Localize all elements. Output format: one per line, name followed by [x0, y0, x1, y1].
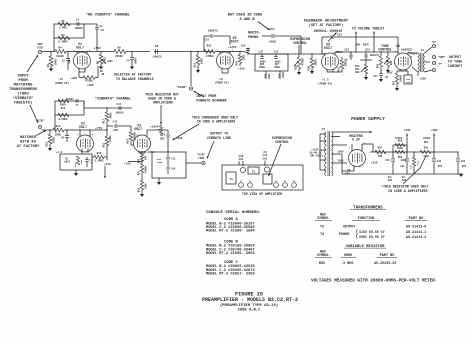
- svg-text:+240: +240: [238, 68, 245, 71]
- svg-text:C19: C19: [241, 45, 246, 48]
- svg-text:.00005: .00005: [73, 27, 83, 30]
- svg-text:C3: C3: [100, 25, 104, 28]
- svg-text:C23: C23: [365, 48, 370, 51]
- svg-text:.00025: .00025: [114, 111, 124, 114]
- svg-text:“VIB”: “VIB”: [35, 119, 44, 123]
- svg-text:.005: .005: [112, 129, 119, 132]
- svg-text:CODE B: CODE B: [224, 240, 238, 244]
- svg-text:R17: R17: [103, 119, 106, 124]
- svg-text:R60: R60: [410, 164, 413, 169]
- svg-text:115V 50-60 CY: 115V 50-60 CY: [359, 230, 385, 234]
- svg-text:R58: R58: [398, 140, 403, 143]
- svg-text:POWER: POWER: [339, 233, 350, 237]
- svg-text:R61: R61: [424, 147, 429, 150]
- svg-text:(FROM V5): (FROM V5): [55, 81, 70, 85]
- svg-text:RADIO-: RADIO-: [248, 32, 261, 36]
- svg-text:R15: R15: [103, 142, 106, 147]
- svg-text:C62: C62: [263, 158, 268, 161]
- svg-text:VOLTAGES MEASURED WITH 20000-O: VOLTAGES MEASURED WITH 20000-OHMS-PER-VO…: [311, 279, 437, 284]
- svg-text:C61: C61: [239, 158, 244, 161]
- svg-text:PHONO: PHONO: [248, 36, 259, 40]
- svg-text:↑L5: ↑L5: [58, 78, 63, 81]
- svg-text:.0025: .0025: [63, 160, 71, 163]
- svg-text:AT FACTORY: AT FACTORY: [17, 145, 41, 149]
- svg-text:+15V: +15V: [387, 72, 393, 75]
- svg-text:.00025: .00025: [151, 56, 161, 59]
- svg-text:.47MEG: .47MEG: [109, 135, 112, 144]
- svg-text:+75V: +75V: [95, 127, 102, 130]
- svg-text:“SCAN”: “SCAN”: [176, 85, 187, 89]
- svg-text:SYMBOL: SYMBOL: [317, 216, 329, 220]
- svg-text:V2: V2: [396, 45, 400, 49]
- svg-text:AO-20293-26: AO-20293-26: [374, 262, 396, 266]
- svg-text:250V: 250V: [338, 160, 345, 163]
- svg-text:CONTROL: CONTROL: [275, 140, 289, 144]
- svg-text:+30V: +30V: [70, 77, 77, 80]
- svg-text:1MEG: 1MEG: [201, 57, 204, 64]
- svg-text:R13: R13: [56, 125, 61, 128]
- svg-text:10000: 10000: [400, 74, 403, 82]
- svg-text:OUTPUT TO: OUTPUT TO: [210, 132, 228, 136]
- svg-text:C8: C8: [61, 137, 65, 140]
- svg-text:“P”: “P”: [438, 63, 443, 66]
- svg-text:R36: R36: [319, 262, 325, 266]
- svg-text:C14: C14: [171, 167, 176, 170]
- svg-text:T3: T3: [421, 49, 425, 52]
- svg-text:+80V: +80V: [107, 60, 114, 63]
- svg-text:C40: C40: [385, 159, 390, 162]
- svg-text:250V: 250V: [338, 151, 345, 154]
- svg-text:1MEG: 1MEG: [274, 66, 280, 69]
- svg-text:R20: R20: [138, 158, 141, 163]
- svg-text:+75V: +75V: [94, 47, 101, 50]
- svg-text:CODE C: CODE C: [224, 261, 238, 265]
- svg-text:AO-21413-0: AO-21413-0: [406, 225, 426, 229]
- svg-text:.47MEG: .47MEG: [302, 57, 305, 67]
- svg-text:C22: C22: [344, 48, 349, 51]
- svg-text:C13: C13: [171, 157, 176, 160]
- svg-text:MATCHED: MATCHED: [20, 136, 37, 140]
- svg-text:230V 50-60 CY: 230V 50-60 CY: [359, 235, 385, 239]
- svg-text:1 MEG: 1 MEG: [59, 26, 67, 29]
- svg-text:CODE A,B,C: CODE A,B,C: [238, 309, 262, 313]
- svg-text:.0004: .0004: [135, 57, 138, 65]
- svg-text:VIB: VIB: [37, 46, 43, 49]
- svg-text:.04VAC: .04VAC: [422, 137, 431, 140]
- svg-text:R57: R57: [378, 147, 383, 150]
- svg-text:6SC7: 6SC7: [231, 41, 239, 45]
- svg-text:R8: R8: [97, 61, 100, 65]
- svg-text:R18: R18: [74, 162, 77, 167]
- svg-text:C63: C63: [269, 28, 274, 31]
- svg-text:A AND B: A AND B: [239, 18, 255, 22]
- svg-text:780K: 780K: [417, 160, 420, 166]
- svg-text:(FROM V2): (FROM V2): [215, 81, 230, 85]
- svg-text:400: 400: [388, 179, 393, 182]
- svg-text:└THIS RESISTOR USED ONLY: └THIS RESISTOR USED ONLY: [381, 185, 429, 189]
- svg-text:.5MEG: .5MEG: [315, 59, 318, 67]
- svg-text:R10: R10: [46, 142, 49, 147]
- svg-text:"NO VIBRATO" CHANNEL: "NO VIBRATO" CHANNEL: [86, 13, 131, 18]
- svg-text:R23: R23: [207, 44, 212, 47]
- svg-text:AO-21414-1: AO-21414-1: [406, 231, 426, 235]
- svg-text:.1MEG: .1MEG: [243, 54, 246, 62]
- svg-text:.0002: .0002: [68, 57, 71, 65]
- svg-text:.1M: .1M: [100, 73, 105, 76]
- svg-text:R1: R1: [47, 64, 50, 68]
- svg-text:1MEG: 1MEG: [268, 73, 271, 79]
- svg-text:6SL7: 6SL7: [79, 125, 87, 129]
- svg-text:C6: C6: [155, 45, 159, 48]
- svg-text:6SC7: 6SC7: [324, 47, 332, 51]
- svg-text:(FROM V2): (FROM V2): [318, 82, 333, 86]
- svg-text:R33: R33: [338, 67, 341, 72]
- svg-text:OUTPUT: OUTPUT: [343, 225, 355, 229]
- svg-text:+320: +320: [371, 162, 378, 165]
- svg-text:T4: T4: [229, 178, 233, 181]
- svg-text:CABINET: CABINET: [448, 65, 463, 69]
- svg-text:OUTPUT: OUTPUT: [449, 56, 461, 60]
- svg-text:+75V: +75V: [124, 163, 131, 166]
- svg-text:↑L5: ↑L5: [218, 78, 223, 81]
- svg-text:R61: R61: [424, 141, 429, 144]
- svg-text:8.2MEG: 8.2MEG: [58, 41, 68, 44]
- svg-text:6SL7: 6SL7: [76, 45, 84, 49]
- svg-text:470: 470: [145, 155, 148, 160]
- svg-text:C62: C62: [461, 160, 466, 163]
- svg-text:10000: 10000: [56, 55, 64, 58]
- svg-text:3900: 3900: [397, 147, 403, 150]
- svg-text:R30: R30: [308, 66, 311, 71]
- svg-text:.25: .25: [89, 162, 94, 165]
- svg-text:+240: +240: [104, 163, 111, 166]
- svg-text:“VIB”: “VIB”: [197, 153, 206, 157]
- svg-text:AO-21414-2: AO-21414-2: [406, 236, 426, 240]
- svg-text:.03: .03: [343, 59, 348, 62]
- svg-text:(SET AT FACTORY): (SET AT FACTORY): [309, 23, 344, 28]
- svg-text:4700: 4700: [423, 155, 429, 158]
- svg-text:FROM: FROM: [18, 79, 28, 83]
- svg-text:2MEG: 2MEG: [55, 58, 58, 65]
- svg-text:(PREAMPLIFIER TYPE AO-10): (PREAMPLIFIER TYPE AO-10): [220, 303, 278, 308]
- svg-text:8.2MEG: 8.2MEG: [58, 118, 68, 121]
- svg-text:R24: R24: [236, 61, 239, 66]
- svg-text:(OR 230V): (OR 230V): [310, 154, 324, 157]
- svg-text:IN CODE A AMPLIFIERS: IN CODE A AMPLIFIERS: [197, 120, 235, 124]
- svg-text:C16: C16: [160, 134, 165, 137]
- svg-text:(THRU: (THRU: [17, 92, 29, 97]
- svg-text:2.2MEG: 2.2MEG: [94, 159, 104, 162]
- svg-text:.055: .055: [461, 165, 467, 168]
- svg-text:.055: .055: [437, 165, 443, 168]
- svg-text:MODEL RT-2 #2057- 2380: MODEL RT-2 #2057- 2380: [206, 272, 255, 276]
- svg-text:ADJ: ADJ: [355, 71, 360, 74]
- svg-text:.01: .01: [100, 29, 105, 32]
- svg-text:TO BALANCE CHANNELS: TO BALANCE CHANNELS: [116, 77, 154, 81]
- svg-text:R21: R21: [138, 170, 141, 175]
- svg-text:“G”: “G”: [432, 40, 437, 44]
- svg-text:−105V: −105V: [146, 151, 154, 154]
- svg-text:.0002: .0002: [282, 71, 285, 79]
- svg-text:NOT USED IN CODE: NOT USED IN CODE: [228, 14, 263, 18]
- svg-text:+1.5: +1.5: [322, 79, 329, 82]
- svg-text:C11: C11: [117, 103, 122, 106]
- svg-text:C17: C17: [259, 50, 264, 53]
- svg-text:R19: R19: [127, 139, 130, 144]
- svg-text:100: 100: [378, 155, 383, 158]
- svg-text:FEEDBACK ADJUSTMENT: FEEDBACK ADJUSTMENT: [304, 19, 349, 23]
- svg-text:MODEL RT-2 #1505- 2056: MODEL RT-2 #1505- 2056: [206, 252, 255, 256]
- svg-text:C21: C21: [337, 33, 342, 36]
- svg-text:R12: R12: [61, 107, 66, 110]
- svg-text:T4: T4: [322, 128, 326, 131]
- svg-text:.0008: .0008: [268, 40, 276, 43]
- svg-text:“NO”: “NO”: [36, 42, 43, 46]
- svg-text:+1.5: +1.5: [56, 151, 63, 154]
- svg-text:54000: 54000: [145, 165, 148, 173]
- svg-text:47000: 47000: [85, 80, 93, 83]
- svg-text:INPUT FROM: INPUT FROM: [196, 95, 216, 99]
- svg-text:+105V: +105V: [150, 126, 159, 129]
- svg-text:1MEG: 1MEG: [157, 161, 163, 164]
- svg-text:VOL DIM: VOL DIM: [356, 42, 369, 46]
- svg-text:.003: .003: [158, 137, 165, 140]
- svg-text:.3 MEG.: .3 MEG.: [341, 262, 355, 266]
- svg-text:R36: R36: [390, 60, 393, 65]
- svg-text:CONSOLE SERIAL NUMBERS:: CONSOLE SERIAL NUMBERS:: [206, 211, 261, 215]
- svg-text:C7: C7: [75, 104, 79, 107]
- svg-text:C24: C24: [373, 75, 378, 78]
- svg-text:"VIBRATO" CHANNEL: "VIBRATO" CHANNEL: [95, 97, 132, 102]
- svg-text:TABLETS): TABLETS): [14, 101, 33, 106]
- svg-text:3900: 3900: [401, 159, 407, 162]
- svg-text:+290: +290: [420, 78, 427, 81]
- svg-text:VIBRATO SCANNER: VIBRATO SCANNER: [196, 99, 227, 103]
- svg-text:.3MEG: .3MEG: [110, 112, 113, 120]
- svg-text:.05: .05: [384, 76, 389, 79]
- svg-text:SYMBOL: SYMBOL: [317, 253, 329, 257]
- svg-text:.15VAC: .15VAC: [394, 137, 403, 140]
- svg-text:TO VOLUME TABLET: TO VOLUME TABLET: [352, 27, 385, 31]
- svg-text:AMPLIFIERS: AMPLIFIERS: [153, 101, 173, 105]
- svg-text:TRANSFORMERS: TRANSFORMERS: [9, 88, 38, 92]
- svg-text:R37: R37: [393, 80, 396, 85]
- svg-text:C12: C12: [113, 121, 118, 124]
- svg-text:IN CODE A AMPLIFIERS: IN CODE A AMPLIFIERS: [388, 189, 428, 193]
- svg-text:LINE: LINE: [198, 157, 205, 160]
- svg-text:T4: T4: [320, 233, 324, 237]
- svg-text:1MEG: 1MEG: [259, 66, 265, 69]
- svg-text:MODEL RT-2 #1300- 1504: MODEL RT-2 #1300- 1504: [206, 230, 255, 234]
- svg-text:TOP VIEW OF AMPLIFIER: TOP VIEW OF AMPLIFIER: [242, 192, 282, 196]
- svg-text:28000: 28000: [115, 55, 123, 58]
- svg-text:INPUT: INPUT: [17, 75, 29, 79]
- svg-text:.000075: .000075: [206, 30, 218, 33]
- svg-text:R9: R9: [117, 47, 121, 50]
- svg-text:CONTROL: CONTROL: [378, 47, 391, 51]
- svg-text:6SC7: 6SC7: [134, 128, 142, 132]
- svg-text:500: 500: [80, 159, 83, 164]
- svg-text:CONTROL: CONTROL: [293, 41, 307, 45]
- svg-text:+290: +290: [404, 129, 411, 132]
- svg-text:R32: R32: [138, 187, 141, 192]
- svg-text:R3: R3: [61, 34, 65, 37]
- svg-text:WITH R3: WITH R3: [20, 140, 37, 144]
- svg-text:10MF: 10MF: [405, 81, 411, 84]
- svg-text:C15: C15: [205, 39, 210, 42]
- svg-text:T3: T3: [252, 170, 256, 173]
- svg-text:6.3V: 6.3V: [352, 138, 360, 142]
- svg-text:POWER SUPPLY: POWER SUPPLY: [351, 116, 385, 122]
- svg-text:“VIBRATO”: “VIBRATO”: [12, 96, 34, 101]
- svg-text:R16: R16: [97, 152, 102, 155]
- svg-text:+280: +280: [431, 129, 438, 132]
- svg-text:C42: C42: [437, 160, 442, 163]
- svg-text:2MEG: 2MEG: [53, 136, 56, 143]
- svg-text:.000175: .000175: [369, 54, 380, 57]
- svg-text:C2: C2: [62, 60, 66, 63]
- svg-text:C4: C4: [126, 60, 130, 63]
- svg-text:R22: R22: [194, 63, 197, 68]
- svg-text:C41: C41: [400, 165, 405, 168]
- svg-text:R4: R4: [58, 47, 62, 50]
- svg-text:VIBRATO LINE: VIBRATO LINE: [207, 137, 231, 141]
- svg-text:CODE A: CODE A: [224, 218, 238, 222]
- svg-text:R35: R35: [377, 63, 380, 68]
- svg-text:T3: T3: [320, 225, 324, 229]
- svg-text:.47MEG: .47MEG: [204, 55, 214, 58]
- svg-text:C18: C18: [274, 50, 279, 53]
- svg-text:MATCHING: MATCHING: [14, 84, 33, 88]
- svg-text:TO TONE: TO TONE: [448, 60, 463, 64]
- svg-text:1000: 1000: [145, 183, 148, 189]
- svg-text:PREAMPLIFIER - MODELS B2,C2,RT: PREAMPLIFIER - MODELS B2,C2,RT-2: [202, 297, 298, 303]
- svg-text:R5: R5: [61, 20, 65, 23]
- svg-text:+280: +280: [87, 84, 94, 87]
- svg-text:“GND”: “GND”: [438, 56, 446, 59]
- svg-text:C1: C1: [76, 19, 80, 22]
